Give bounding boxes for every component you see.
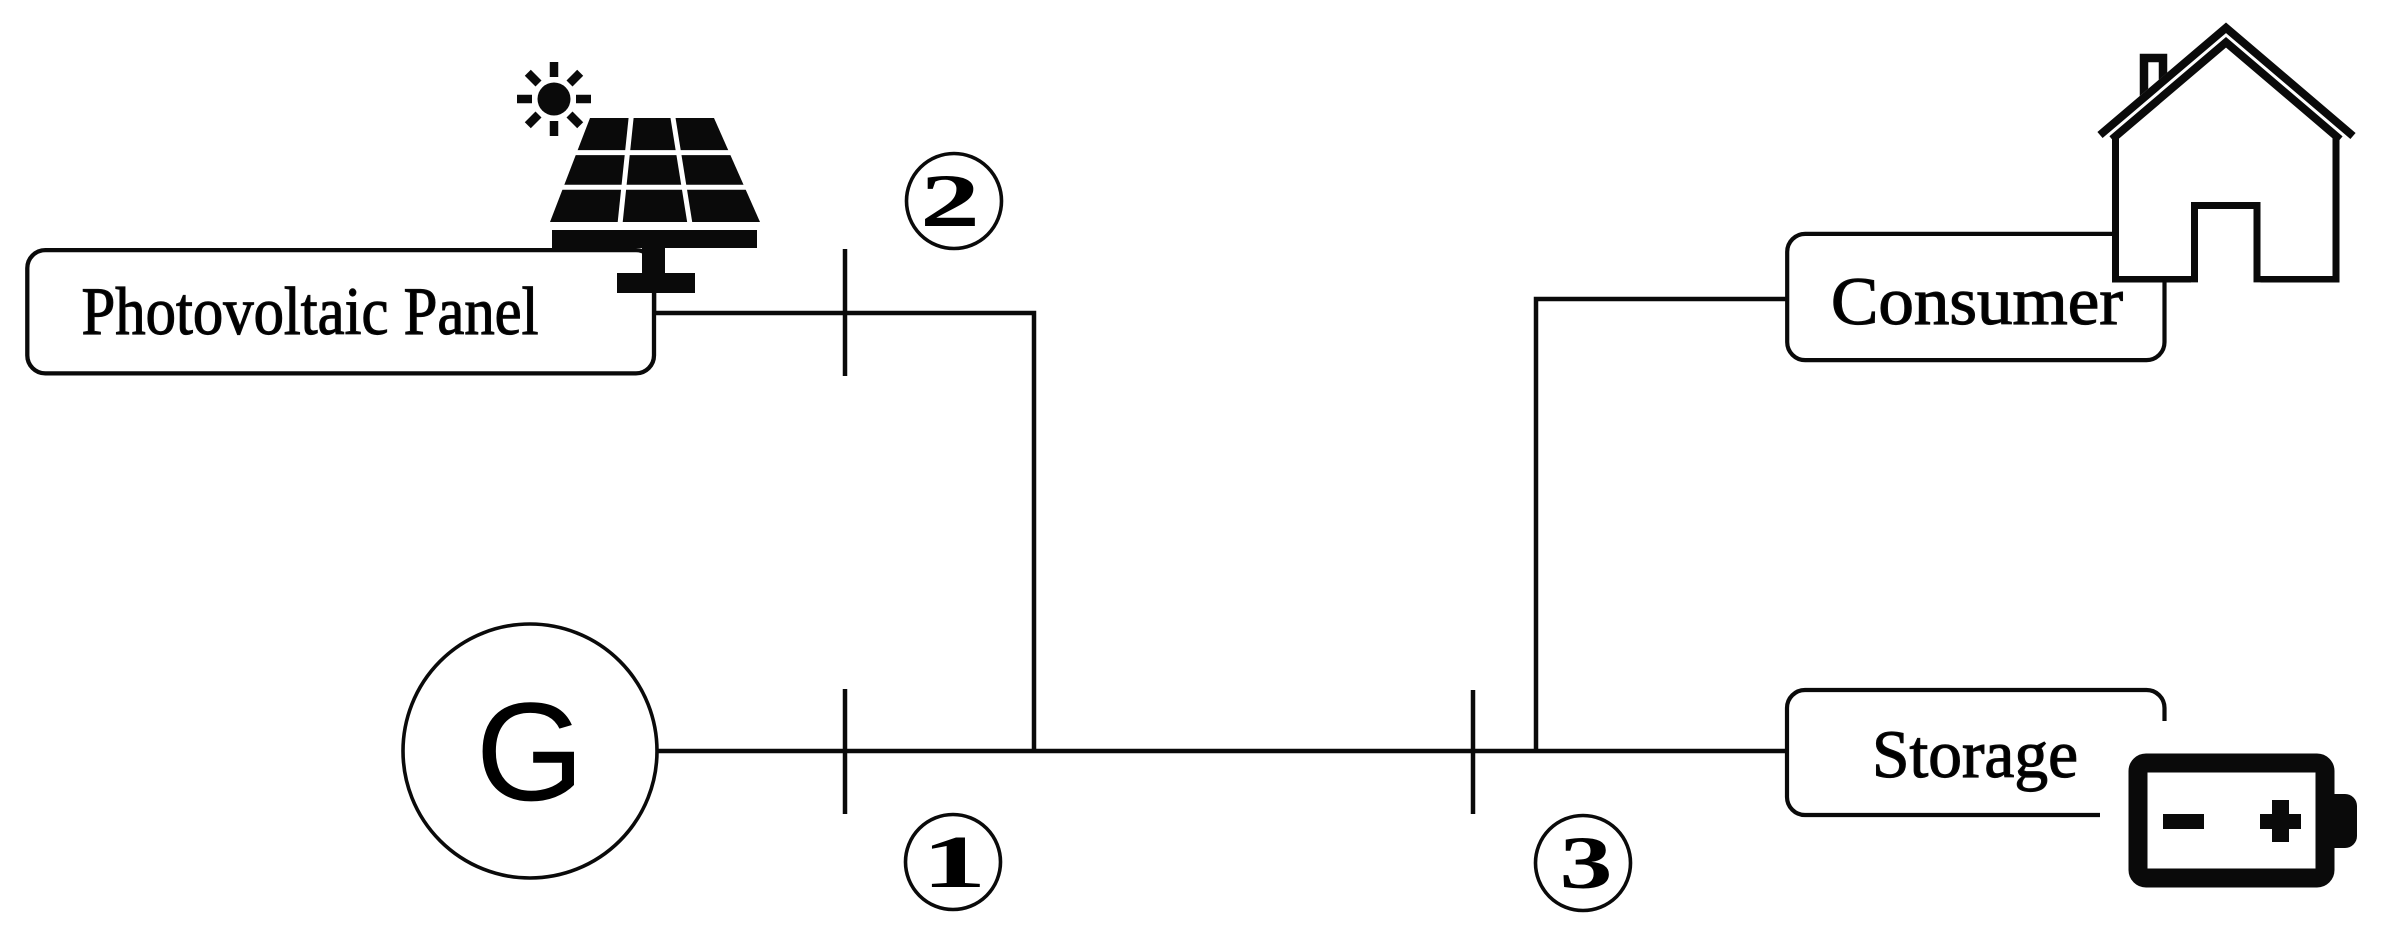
bus 3 (tick mark) bbox=[1471, 690, 1476, 814]
bus 2 (tick mark) bbox=[843, 249, 848, 376]
main bus wire (generator to storage) bbox=[657, 749, 1788, 754]
wire: consumer drop to main bus bbox=[1536, 299, 1787, 751]
house floor bbox=[2112, 276, 2191, 283]
battery minus sign bbox=[2163, 814, 2204, 829]
node 3 circled label bbox=[1536, 816, 1631, 911]
svg-text:3: 3 bbox=[1560, 822, 1613, 905]
svg-text:Storage: Storage bbox=[1872, 716, 2078, 792]
box: Photovoltaic Panel bbox=[27, 250, 654, 373]
house door bbox=[2195, 206, 2258, 283]
svg-text:Photovoltaic Panel: Photovoltaic Panel bbox=[82, 273, 539, 349]
box: Consumer bbox=[1787, 234, 2164, 360]
svg-text:1: 1 bbox=[922, 821, 987, 904]
svg-text:Consumer: Consumer bbox=[1831, 263, 2123, 339]
wire: PV panel output to junction on main bus bbox=[654, 291, 1034, 751]
box: Storage bbox=[1787, 690, 2165, 815]
svg-text:2: 2 bbox=[920, 160, 980, 243]
house roof outer line bbox=[2100, 28, 2353, 136]
house icon (consumer) bbox=[2100, 28, 2353, 283]
bus 1 (tick mark) bbox=[843, 689, 848, 814]
battery icon (storage) bbox=[2100, 721, 2392, 915]
solar panel icon (PV module on pedestal) bbox=[550, 118, 760, 293]
house walls bbox=[2112, 134, 2119, 282]
battery plus sign bbox=[2260, 814, 2301, 829]
battery terminal nub bbox=[2334, 794, 2357, 848]
sun icon bbox=[517, 62, 591, 136]
generator G bbox=[403, 624, 657, 878]
node 2 circled label bbox=[907, 154, 1002, 249]
node 1 circled label bbox=[906, 815, 1001, 910]
house roof inner line bbox=[2112, 42, 2340, 139]
solar panel cell dividers (white) bbox=[557, 116, 748, 224]
svg-text:G: G bbox=[476, 673, 585, 830]
